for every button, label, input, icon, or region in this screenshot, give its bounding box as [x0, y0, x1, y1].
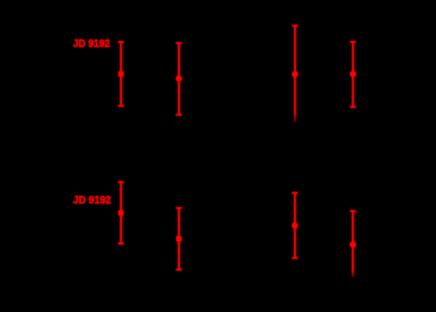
svg-text:JD 9192: JD 9192	[73, 195, 111, 207]
svg-text:JD 9192: JD 9192	[73, 38, 110, 50]
